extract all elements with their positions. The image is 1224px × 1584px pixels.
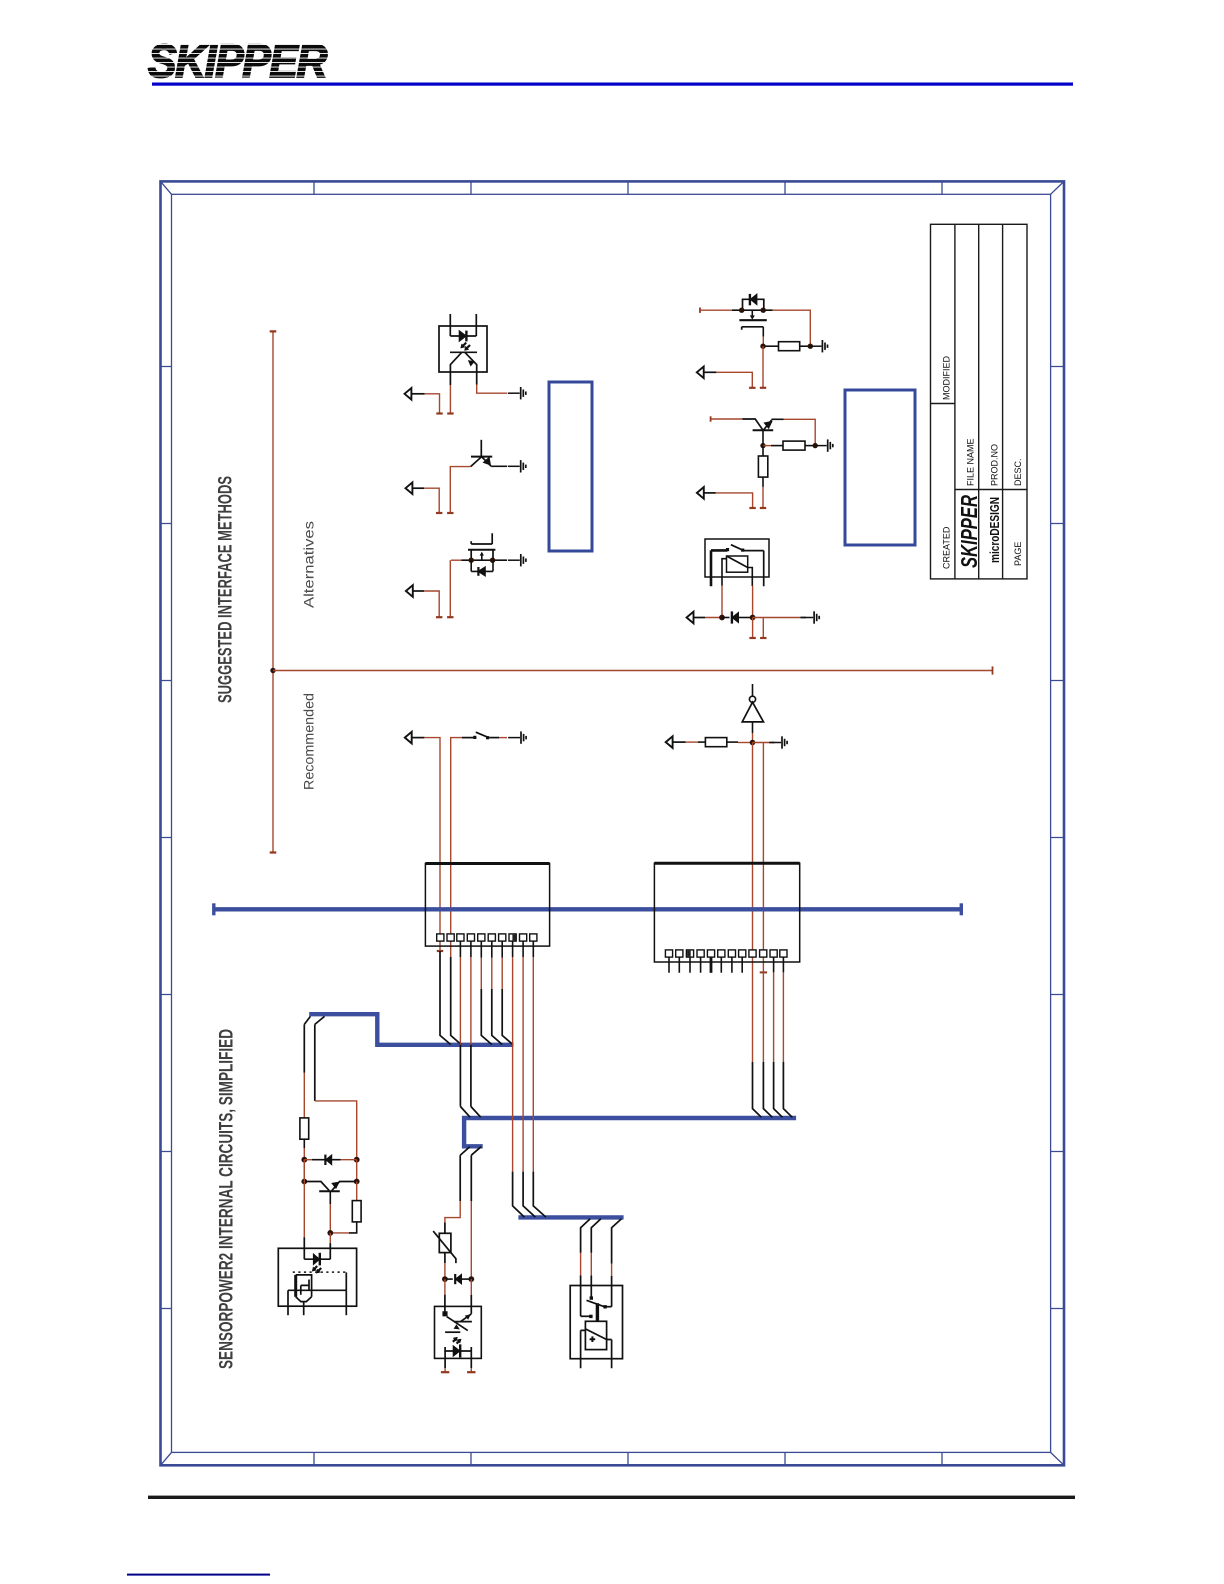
wire input arrow lead (704, 371, 717, 373)
wire J1 pin3 jog through bus C (460, 1107, 470, 1156)
wire end bar (760, 387, 766, 389)
node junction (301, 1157, 307, 1163)
wire switch feed red (451, 738, 462, 957)
wire node to corner red (753, 742, 772, 744)
wire input arrow lead (413, 590, 424, 592)
ground (769, 736, 787, 748)
wire end bar (749, 637, 755, 639)
wire arrow lead (673, 741, 686, 743)
connector J2 pin5 thick stub (710, 957, 713, 973)
frame zone ticks bottom (314, 1452, 942, 1465)
optocoupler U3 box (435, 1306, 482, 1358)
transistor Q4 collector lead (762, 430, 764, 445)
SKIPPER header logo (148, 35, 327, 87)
node junction (808, 344, 813, 349)
wire J1 pin3 stub (459, 941, 461, 957)
resistor R5 (vertical) (300, 1118, 309, 1139)
wire end bar (760, 637, 766, 639)
wire start tick (npn supply) (710, 416, 712, 421)
optocoupler U1 emitter arrow (469, 361, 474, 365)
node junction (761, 308, 766, 313)
relay K1 coil box (727, 556, 748, 572)
wire left pillar black (303, 1237, 305, 1259)
node junction (739, 308, 744, 313)
wire J1 pin2 black to bus B (451, 957, 461, 1045)
wire emitter to ground (491, 465, 507, 467)
wire end bar (436, 412, 442, 414)
node junction (327, 1230, 333, 1236)
wire source red stub (449, 560, 451, 617)
input arrow (relay) (687, 612, 694, 624)
transistor Q1 base bar (471, 456, 492, 458)
opamp U4 left lead (581, 1330, 586, 1368)
wire resistor to node (805, 445, 815, 447)
resistor R2 (783, 441, 805, 450)
transistor Q4 base bar (753, 429, 774, 431)
connector J2 box (654, 863, 799, 962)
mosfet Q2 gate bar (471, 533, 492, 544)
node junction (468, 1276, 474, 1282)
wire left pillar into led box (303, 1160, 305, 1238)
wire J1 pin9 black to bus D (523, 1172, 535, 1218)
wire arrow to pin1 red (424, 738, 440, 947)
relay K1 coil right terminal (748, 568, 753, 587)
wire arrow to node red (705, 617, 722, 619)
wire J1 pin3 red (459, 957, 461, 1045)
transistor Q1 emitter arrow (484, 458, 490, 465)
wire mosfet row (451, 559, 461, 561)
transistor Q5 emitter link (332, 1182, 357, 1191)
relay K1 left contact terminal (711, 550, 727, 586)
comparator module box (570, 1286, 622, 1359)
wire J2 pin12 red (782, 972, 784, 1062)
connector J1 pin squares (437, 934, 537, 941)
wire sensor left feed black (303, 1024, 305, 1072)
opamp U4 right lead (607, 1340, 612, 1369)
wire end bar (441, 1371, 449, 1373)
switch S1 contacts (473, 736, 476, 739)
wire end bar (760, 507, 766, 509)
wire node to resistor black (771, 445, 783, 447)
comparator switch throw lead (581, 1315, 590, 1317)
footer link line (127, 1574, 270, 1576)
mosfet Q3 top link with taps (743, 299, 764, 310)
optocoupler U1 anode pin wire (449, 314, 451, 336)
sensor LED wire (304, 1258, 330, 1260)
sensor module box (278, 1248, 356, 1306)
bus cable segment B (309, 1014, 513, 1045)
input arrow (recommended switch) (405, 732, 412, 744)
wire coil left red (721, 586, 723, 618)
wire J1 pin4 red (470, 957, 472, 1045)
wire switch to ground red part (499, 737, 507, 739)
transistor Q5 emitter arrow (332, 1182, 338, 1188)
inverter U2 bubble (749, 696, 755, 702)
optocoupler U3 pin red tails (445, 1368, 471, 1372)
bus cable A left cap (212, 903, 215, 915)
wire pin10 red continue (762, 972, 764, 1062)
transistor Q1 base lead diagonal (471, 457, 482, 467)
node junction (490, 558, 495, 563)
sensor LED diode (313, 1253, 319, 1266)
svg-text:CREATED: CREATED (942, 526, 952, 569)
inverter U2 triangle (742, 702, 763, 722)
comparator switch contacts (589, 1315, 592, 1318)
mosfet Q2 body diode (471, 560, 493, 576)
mosfet Q3 body diode (750, 294, 757, 305)
wire node to resistor R3 (762, 446, 764, 456)
wire end bar (467, 1371, 475, 1373)
ground (810, 340, 828, 352)
opamp U4 plus sign (590, 1336, 596, 1342)
drawing frame inner border (172, 194, 1051, 1452)
wire sensor left feed red (303, 1073, 305, 1118)
node junction (813, 443, 818, 448)
resistor R3 (vertical) (758, 456, 767, 477)
wire node column red right (356, 1160, 358, 1182)
optocoupler U1 phototransistor (450, 352, 477, 385)
optocoupler U3 arrows (454, 1314, 471, 1329)
footer rule (148, 1496, 1075, 1499)
mosfet Q2 substrate arrow (480, 552, 484, 561)
wire coil right red (752, 586, 754, 618)
wire input arrow lead (704, 492, 716, 494)
wire four feeds to bus C black (753, 1062, 793, 1117)
wire J1 pin10 black to bus D (533, 1172, 546, 1218)
probe element outline (296, 1275, 312, 1302)
inverter U2 input stub (752, 684, 754, 697)
transistor Q5 base bar (319, 1190, 340, 1192)
opamp U4 diagonal (585, 1329, 606, 1340)
wire emitter out black (772, 418, 784, 420)
wire J1 pin1 black to bus B (440, 951, 451, 1045)
wire to opto red (470, 1201, 472, 1279)
optocoupler U1 LED wire (450, 335, 476, 337)
wire pmos drain loop red (773, 310, 811, 346)
probe internal step (301, 1280, 309, 1295)
wire J2 pin11 (773, 957, 775, 972)
optocoupler U1 emission arrows (461, 343, 470, 351)
frame zone ticks left (161, 367, 172, 1309)
wire thermistor bottom black (444, 1253, 446, 1264)
wire end bar (749, 507, 755, 509)
inverter U2 output lead (752, 722, 754, 733)
diode D3 (445, 1274, 471, 1284)
net bracket end bars (270, 331, 277, 852)
frame zone ticks top (314, 181, 942, 194)
wire start tick (pmos supply) (699, 308, 701, 313)
transistor Q5 collector link (304, 1182, 329, 1191)
relay K1 switch lever (731, 545, 743, 551)
resistor R4 (705, 738, 726, 747)
wire switch to ground (489, 737, 499, 739)
bus cable segment A (214, 907, 962, 911)
title block grid (931, 224, 1028, 579)
wire J1 pin8 red (512, 957, 514, 1172)
wire resistor node red (738, 742, 753, 744)
transistor Q4 emitter diagonal (763, 420, 771, 430)
ground (508, 554, 526, 566)
connector J2 pin squares (665, 950, 787, 957)
mosfet Q2 drain source taps (471, 550, 493, 560)
relay K1 box (705, 539, 769, 577)
wire input red stub (716, 493, 753, 508)
wire J1 pin10 red (532, 957, 534, 1172)
wire resistor to ground (800, 345, 810, 347)
wire end bar (447, 412, 453, 414)
transistor Q4 emitter arrow (765, 422, 772, 428)
wire resistor R5 bottom (303, 1139, 305, 1148)
ground (815, 439, 833, 451)
wire J1 pin7 to bus B (501, 941, 503, 957)
wire ground lead black (771, 742, 775, 744)
relay K1 switch contacts (726, 548, 729, 551)
sensor pin 2 (303, 1302, 305, 1316)
drawing frame outer border (161, 181, 1065, 1465)
wire end bar (447, 512, 453, 514)
wire gate node to resistor (763, 345, 779, 347)
wire resistor R3 bottom (762, 477, 764, 487)
svg-text:microDESIGN: microDESIGN (988, 497, 1002, 563)
wire J1 pin4 stub (470, 941, 472, 957)
ground (508, 387, 526, 399)
comparator switch lever (587, 1300, 606, 1307)
opamp U4 box (585, 1321, 606, 1349)
wire mosfet row black (461, 559, 507, 561)
transistor Q4 base lead (742, 419, 763, 430)
transistor Q5 base lead (329, 1191, 331, 1204)
svg-text:PROD.NO: PROD.NO (989, 444, 999, 486)
svg-text:SKIPPER: SKIPPER (956, 495, 982, 568)
wire resistor R3 red stub (762, 487, 764, 508)
input arrow (mosfet) (406, 585, 413, 597)
net bracket vertical (suggested methods) (272, 331, 274, 852)
header rule (152, 83, 1073, 86)
wire input arrow lead (412, 393, 425, 395)
optocoupler U3 LED wire (445, 1347, 471, 1351)
node junction (354, 1179, 360, 1185)
optocoupler U1 LED diode (459, 331, 466, 342)
wire diode to node (739, 617, 753, 619)
mosfet Q3 gate lead red (762, 337, 764, 344)
wire bus C exit to thermistor black (459, 1155, 461, 1201)
wire input red stub (425, 394, 440, 414)
wire J1 pin9 red (522, 957, 524, 1172)
mosfet Q3 gate lead (762, 327, 764, 337)
node junction (469, 558, 474, 563)
ground (508, 460, 526, 472)
wire corner feed red (762, 743, 764, 973)
wire thermistor to node red (444, 1263, 446, 1279)
thermistor RT1 strike (433, 1231, 456, 1263)
input arrow (opto) (405, 388, 412, 400)
sensor pin 1 (287, 1290, 289, 1315)
svg-text:SKIPPER: SKIPPER (148, 35, 327, 87)
sensor inner rail (288, 1289, 346, 1291)
wire pmos row black (732, 309, 773, 311)
svg-text:FILE NAME: FILE NAME (966, 438, 976, 486)
wire diode row red right (341, 1159, 357, 1161)
diode D1 (732, 611, 739, 623)
wire J1 pin10 stub (532, 941, 534, 957)
transistor Q1 collector stub (480, 440, 482, 457)
sensor LED emission arrows (312, 1266, 321, 1273)
node junction (750, 740, 756, 746)
wire to resistor R6 red (356, 1182, 358, 1201)
wire sensor right loop red (315, 1101, 357, 1160)
wire switch lead black (462, 737, 474, 739)
wire comparator feeds black lower (581, 1275, 612, 1316)
wire node to diode (722, 617, 730, 619)
wire node into led box black (329, 1243, 331, 1259)
wire J2 pin11 red (773, 972, 775, 1062)
wire end bar (437, 950, 443, 952)
node junction (760, 344, 765, 349)
wire diode row black (312, 1159, 341, 1161)
wire base red (450, 467, 470, 513)
wire red stub (762, 618, 764, 639)
wire opto collector to ground (477, 385, 507, 394)
wire npn supply red (711, 418, 743, 420)
svg-text:SUGGESTED INTERFACE METHODS: SUGGESTED INTERFACE METHODS (216, 476, 237, 703)
sensor pin 3 (345, 1290, 347, 1315)
node junction (719, 615, 725, 621)
svg-text:Alternatives: Alternatives (301, 521, 317, 608)
frame zone ticks right (1051, 367, 1064, 1309)
wire J1 pin4 jog through bus C (471, 1107, 481, 1156)
wire opto feeds black (445, 1295, 471, 1314)
wire bus C exit to opto black (470, 1155, 472, 1201)
switch S1 lever (476, 732, 488, 737)
wire end bar (447, 616, 453, 618)
wire comparator feeds red (581, 1253, 612, 1276)
wire end bar (436, 616, 442, 618)
optocoupler U1 cathode pin wire (475, 314, 477, 336)
wire red stub (752, 618, 754, 639)
wire J1 pin8 stub (512, 941, 514, 957)
wire end bar on pin (760, 971, 767, 973)
svg-text:SENSORPOWER2 INTERNAL CIRCUITS: SENSORPOWER2 INTERNAL CIRCUITS, SIMPLIFI… (217, 1029, 238, 1369)
node junction (301, 1179, 307, 1185)
wire opto feeds red (445, 1279, 471, 1295)
node junction (760, 443, 765, 448)
svg-text:DESC.: DESC. (1013, 458, 1023, 486)
wire bus D exits to comparator (581, 1219, 622, 1264)
wire end bar (749, 387, 755, 389)
node junction on bracket (270, 668, 275, 673)
wire node column red left (303, 1160, 305, 1182)
relay K1 coil left terminal (722, 559, 727, 586)
note box A (549, 382, 592, 551)
wire opto emitter stub (449, 385, 451, 414)
wire to thermistor red (445, 1201, 460, 1223)
wire inverter output red (752, 733, 754, 743)
mosfet Q3 substrate arrow (750, 310, 755, 320)
wire arrow lead black (694, 617, 705, 619)
wire node into led box red (329, 1233, 331, 1243)
frame corner diagonals (161, 181, 1065, 1465)
wire inverter out to connector red (752, 743, 754, 1062)
relay K1 coil diagonal (727, 556, 748, 568)
wire base red (329, 1204, 331, 1233)
wire input red stub (716, 372, 752, 388)
note box B (845, 390, 915, 545)
thermistor RT1 body (439, 1233, 451, 1252)
resistor R6 (vertical) (352, 1201, 361, 1222)
wire input red stub (424, 591, 439, 617)
wire bus B branch diagonals to sensor circuit (304, 1016, 324, 1024)
resistor R1 (779, 342, 800, 351)
wire arrow to resistor red (686, 741, 698, 743)
ground (508, 731, 526, 743)
wire J1 pin6 to bus B (491, 941, 493, 957)
input arrow (transistor) (406, 482, 413, 494)
wire input red stub (424, 488, 439, 513)
connector J2 pin stubs 1-8 (669, 957, 742, 973)
wire horizontal rail (273, 670, 993, 672)
optocoupler U3 emission arrows (453, 1337, 461, 1343)
sensor dotted separator (293, 1271, 347, 1273)
connector J1 box (425, 864, 549, 947)
wire diode row red left (304, 1159, 312, 1161)
wire emitter loop red (784, 419, 816, 445)
svg-text:MODIFIED: MODIFIED (942, 356, 952, 400)
wire arrow lead (412, 737, 425, 739)
wire into resistor black (698, 741, 705, 743)
wire node to resistor red (763, 445, 771, 447)
optocoupler U3 pins (445, 1351, 471, 1368)
wire J1 pin9 stub (522, 941, 524, 957)
comparator switch right link (605, 1306, 612, 1308)
wire J1 pin3 black mid (459, 1045, 461, 1107)
wire J1 pin8 black to bus D (513, 1172, 525, 1218)
wire sensor right feed black (314, 1024, 316, 1101)
wire bottom row red (330, 1232, 349, 1234)
wire resistor to node red (303, 1148, 305, 1160)
transistor Q1 emitter diagonal (482, 457, 491, 466)
mosfet Q3 gate bar (742, 327, 764, 330)
wire J2 pin12 (782, 957, 784, 972)
optocoupler U3 LED diode (453, 1344, 460, 1357)
mosfet Q2 channel bar (468, 549, 495, 551)
wire ground lead black (800, 617, 806, 619)
node junction (354, 1157, 360, 1163)
optocoupler U3 phototransistor (443, 1312, 472, 1332)
wire input arrow lead (413, 487, 425, 489)
bus cable A right cap (960, 903, 963, 915)
optocoupler U1 box (439, 326, 487, 372)
node junction (442, 1276, 448, 1282)
mosfet Q3 channel bar (739, 319, 766, 321)
svg-text:PAGE: PAGE (1013, 542, 1023, 566)
wire node to ground red (753, 617, 801, 619)
bus cable segment C (464, 1118, 796, 1146)
wire thermistor top black (444, 1223, 446, 1234)
input arrow (npn base) (697, 487, 704, 499)
input arrow (inverter) (666, 736, 673, 748)
wire end bar (436, 512, 442, 514)
wire J1 pin4 black mid (470, 1045, 472, 1107)
wire gate red stub (762, 346, 764, 388)
input arrow (pmos) (697, 367, 704, 379)
ground (801, 611, 819, 623)
rail end tick (992, 666, 994, 674)
diode D2 (325, 1155, 331, 1165)
svg-text:Recommended: Recommended (301, 693, 317, 790)
relay K1 right contact terminal (743, 551, 764, 587)
node junction (750, 615, 756, 621)
bus cable segment D (518, 1215, 623, 1219)
